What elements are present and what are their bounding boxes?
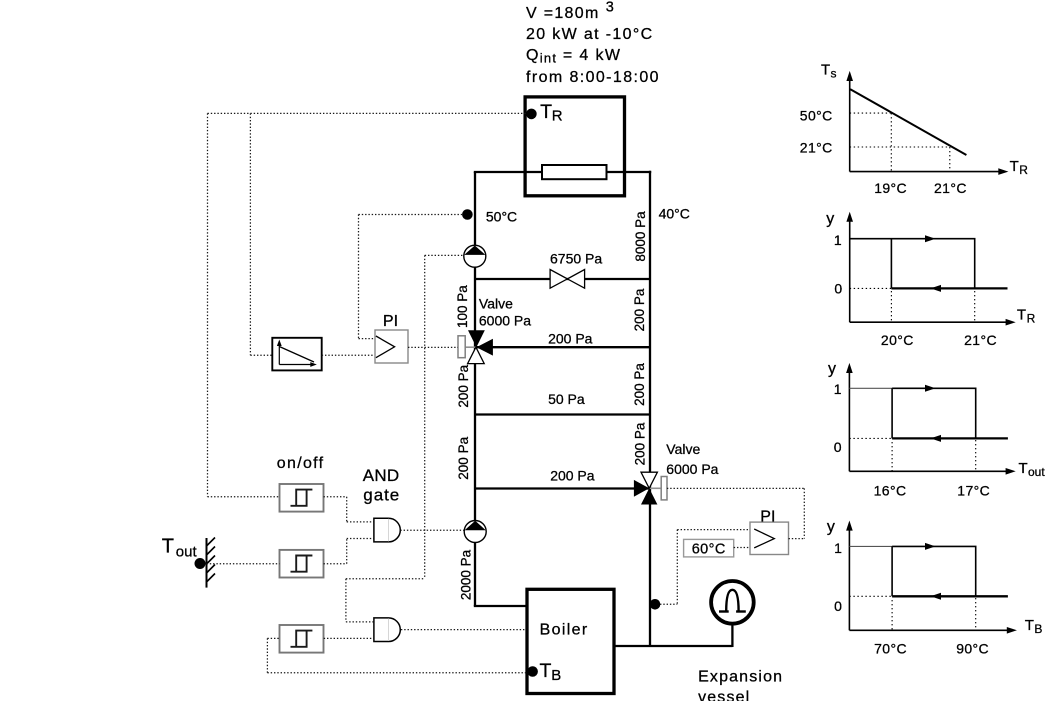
chart1 x axis xyxy=(850,171,1000,173)
chart4 x axis xyxy=(849,629,1008,631)
svg-text:100 Pa: 100 Pa xyxy=(455,285,470,328)
chart3 loop xyxy=(849,387,892,389)
svg-text:6750 Pa: 6750 Pa xyxy=(550,251,602,267)
chart4 y axis xyxy=(848,528,850,630)
svg-text:Valve: Valve xyxy=(666,441,700,457)
svg-text:T: T xyxy=(540,101,552,123)
node TB sensor dot xyxy=(527,666,538,677)
svg-text:60°C: 60°C xyxy=(692,541,726,557)
svg-text:T: T xyxy=(1010,158,1019,175)
wire PI1 to valve V1 xyxy=(408,346,458,348)
svg-text:T: T xyxy=(162,535,174,557)
hysteresis block H2 xyxy=(280,550,324,578)
svg-text:200 Pa: 200 Pa xyxy=(456,364,471,407)
svg-text:90°C: 90°C xyxy=(956,641,989,657)
svg-text:21°C: 21°C xyxy=(934,180,967,196)
CONTROL xyxy=(195,113,805,672)
node Tout sensor xyxy=(195,538,216,588)
PI controller U2 xyxy=(750,522,789,554)
svg-text:50 Pa: 50 Pa xyxy=(548,391,585,407)
wire AND2 to boiler xyxy=(401,629,526,631)
pump P1 xyxy=(464,245,486,267)
node 50C sensor dot xyxy=(462,209,473,220)
CHARTS xyxy=(800,62,1045,657)
svg-text:200 Pa: 200 Pa xyxy=(456,436,471,479)
svg-text:0: 0 xyxy=(834,281,842,297)
svg-text:6000 Pa: 6000 Pa xyxy=(666,461,718,477)
svg-text:y: y xyxy=(827,518,835,535)
svg-text:6000 Pa: 6000 Pa xyxy=(479,312,531,328)
svg-text:from 8:00-18:00: from 8:00-18:00 xyxy=(526,69,660,86)
chart2 loop xyxy=(850,239,975,289)
chart3 x axis xyxy=(849,470,1007,472)
heating curve block xyxy=(272,338,321,371)
svg-text:PI: PI xyxy=(383,313,398,330)
ROOM xyxy=(525,97,624,694)
node 60C sensor dot on return pipe xyxy=(650,599,661,610)
valve V2 three-way valve at return xyxy=(634,472,667,504)
wire PI2 to valve V2 xyxy=(667,488,804,538)
wire 60C dot to PI2 xyxy=(660,530,750,605)
svg-text:out: out xyxy=(1028,465,1045,479)
AND gate G1 xyxy=(374,518,400,542)
svg-text:21°C: 21°C xyxy=(800,140,833,156)
chart4 loop xyxy=(849,545,892,547)
svg-text:T: T xyxy=(1025,617,1034,634)
chart3 y axis xyxy=(848,371,850,472)
wire bypass line 6750 Pa xyxy=(475,278,650,280)
chart1 heating curve Ts vs TR xyxy=(800,62,1028,196)
pump P2 xyxy=(464,521,486,543)
svg-text:V =180m: V =180m xyxy=(526,5,600,22)
wire Tout to H2 xyxy=(207,563,280,565)
svg-text:8000 Pa: 8000 Pa xyxy=(633,211,648,262)
wire expansion vessel drop xyxy=(731,621,733,647)
svg-text:AND: AND xyxy=(363,466,400,485)
svg-text:21°C: 21°C xyxy=(964,332,997,348)
svg-text:1: 1 xyxy=(834,232,842,248)
boiler box xyxy=(527,589,614,693)
room box xyxy=(525,97,624,196)
wire boiler to expansion vessel xyxy=(614,645,732,647)
svg-text:T: T xyxy=(1019,460,1028,477)
svg-text:50°C: 50°C xyxy=(486,209,517,225)
svg-text:R: R xyxy=(1027,312,1036,326)
svg-text:B: B xyxy=(551,667,561,684)
svg-text:200 Pa: 200 Pa xyxy=(632,363,647,406)
expansion vessel xyxy=(711,581,754,624)
chart3 hysteresis y vs Tout xyxy=(828,361,1045,499)
chart2 x axis xyxy=(850,321,1007,323)
svg-text:Qint = 4 kW: Qint = 4 kW xyxy=(526,47,621,65)
svg-text:out: out xyxy=(176,544,198,561)
svg-text:Boiler: Boiler xyxy=(540,622,589,639)
wire 50C to PI1 xyxy=(359,214,463,216)
svg-text:y: y xyxy=(828,361,836,378)
svg-text:y: y xyxy=(826,210,834,227)
svg-text:19°C: 19°C xyxy=(874,180,907,196)
wire H1 to AND1 xyxy=(324,497,374,522)
chart1 y axis xyxy=(849,79,851,172)
wire supply to boiler bottom xyxy=(474,605,527,607)
wire heating curve to PI1 xyxy=(322,354,375,356)
wire 60C box to PI2 xyxy=(734,547,750,549)
chart4 hysteresis y vs TB xyxy=(827,518,1043,656)
svg-text:200 Pa: 200 Pa xyxy=(548,331,593,347)
svg-text:T: T xyxy=(540,660,552,682)
valve V1 three-way mixing valve xyxy=(458,330,493,363)
svg-text:gate: gate xyxy=(363,486,400,505)
svg-text:B: B xyxy=(1034,622,1042,636)
svg-text:Expansion: Expansion xyxy=(698,669,783,686)
svg-text:0: 0 xyxy=(834,439,842,455)
radiator xyxy=(542,165,607,179)
svg-text:T: T xyxy=(821,62,830,79)
wire supply pipe left vertical xyxy=(474,172,476,606)
svg-text:vessel: vessel xyxy=(698,689,750,701)
chart3 dotted guides xyxy=(849,438,975,471)
wire radiator line top xyxy=(474,171,651,173)
svg-text:on/off: on/off xyxy=(277,455,325,472)
valve 6750 Pa bowtie xyxy=(550,270,585,289)
PI controller U1 xyxy=(375,330,408,363)
svg-text:70°C: 70°C xyxy=(874,641,907,657)
svg-text:50°C: 50°C xyxy=(800,107,833,123)
svg-text:PI: PI xyxy=(760,509,775,526)
hysteresis block H1 xyxy=(280,484,324,512)
svg-text:T: T xyxy=(1017,307,1026,324)
wire AND1 output to pumps and AND2 xyxy=(400,529,464,531)
svg-text:1: 1 xyxy=(834,381,842,397)
svg-text:R: R xyxy=(1019,163,1028,177)
svg-text:200 Pa: 200 Pa xyxy=(550,467,595,483)
wire 200 Pa line lower xyxy=(475,487,650,489)
svg-text:Valve: Valve xyxy=(479,295,513,311)
svg-text:2000 Pa: 2000 Pa xyxy=(458,549,473,600)
chart1 curve xyxy=(850,89,966,155)
hysteresis block H3 xyxy=(280,625,324,653)
svg-text:R: R xyxy=(552,108,563,125)
svg-text:16°C: 16°C xyxy=(874,482,907,498)
wire H3 to AND2 xyxy=(324,637,374,639)
wire H2 to AND1 xyxy=(324,539,374,564)
svg-text:200 Pa: 200 Pa xyxy=(632,288,647,331)
setpoint box 60C xyxy=(684,539,734,557)
chart1 dotted guides xyxy=(850,113,950,172)
wire TB to H3 xyxy=(267,672,528,674)
chart4 dotted guides xyxy=(849,596,975,630)
node TR sensor dot xyxy=(526,109,537,120)
svg-text:20°C: 20°C xyxy=(881,332,914,348)
PIPES xyxy=(474,171,733,647)
svg-text:3: 3 xyxy=(606,0,614,16)
chart2 y axis xyxy=(849,220,851,323)
node TR dotted net xyxy=(208,112,528,114)
chart2 hysteresis y vs TR xyxy=(826,210,1035,348)
svg-text:s: s xyxy=(831,67,837,81)
wire 200 Pa line upper xyxy=(475,346,650,348)
COMPONENTS xyxy=(458,245,754,623)
chart2 dotted guides xyxy=(850,288,975,322)
svg-text:200 Pa: 200 Pa xyxy=(632,422,647,465)
svg-text:40°C: 40°C xyxy=(659,206,690,222)
wire return pipe right vertical xyxy=(649,171,651,646)
AND gate G2 xyxy=(374,618,400,642)
svg-text:20 kW at -10°C: 20 kW at -10°C xyxy=(526,26,654,43)
svg-text:17°C: 17°C xyxy=(957,482,990,498)
wire 50 Pa line xyxy=(475,413,650,415)
svg-text:1: 1 xyxy=(834,540,842,556)
svg-text:0: 0 xyxy=(834,598,842,614)
